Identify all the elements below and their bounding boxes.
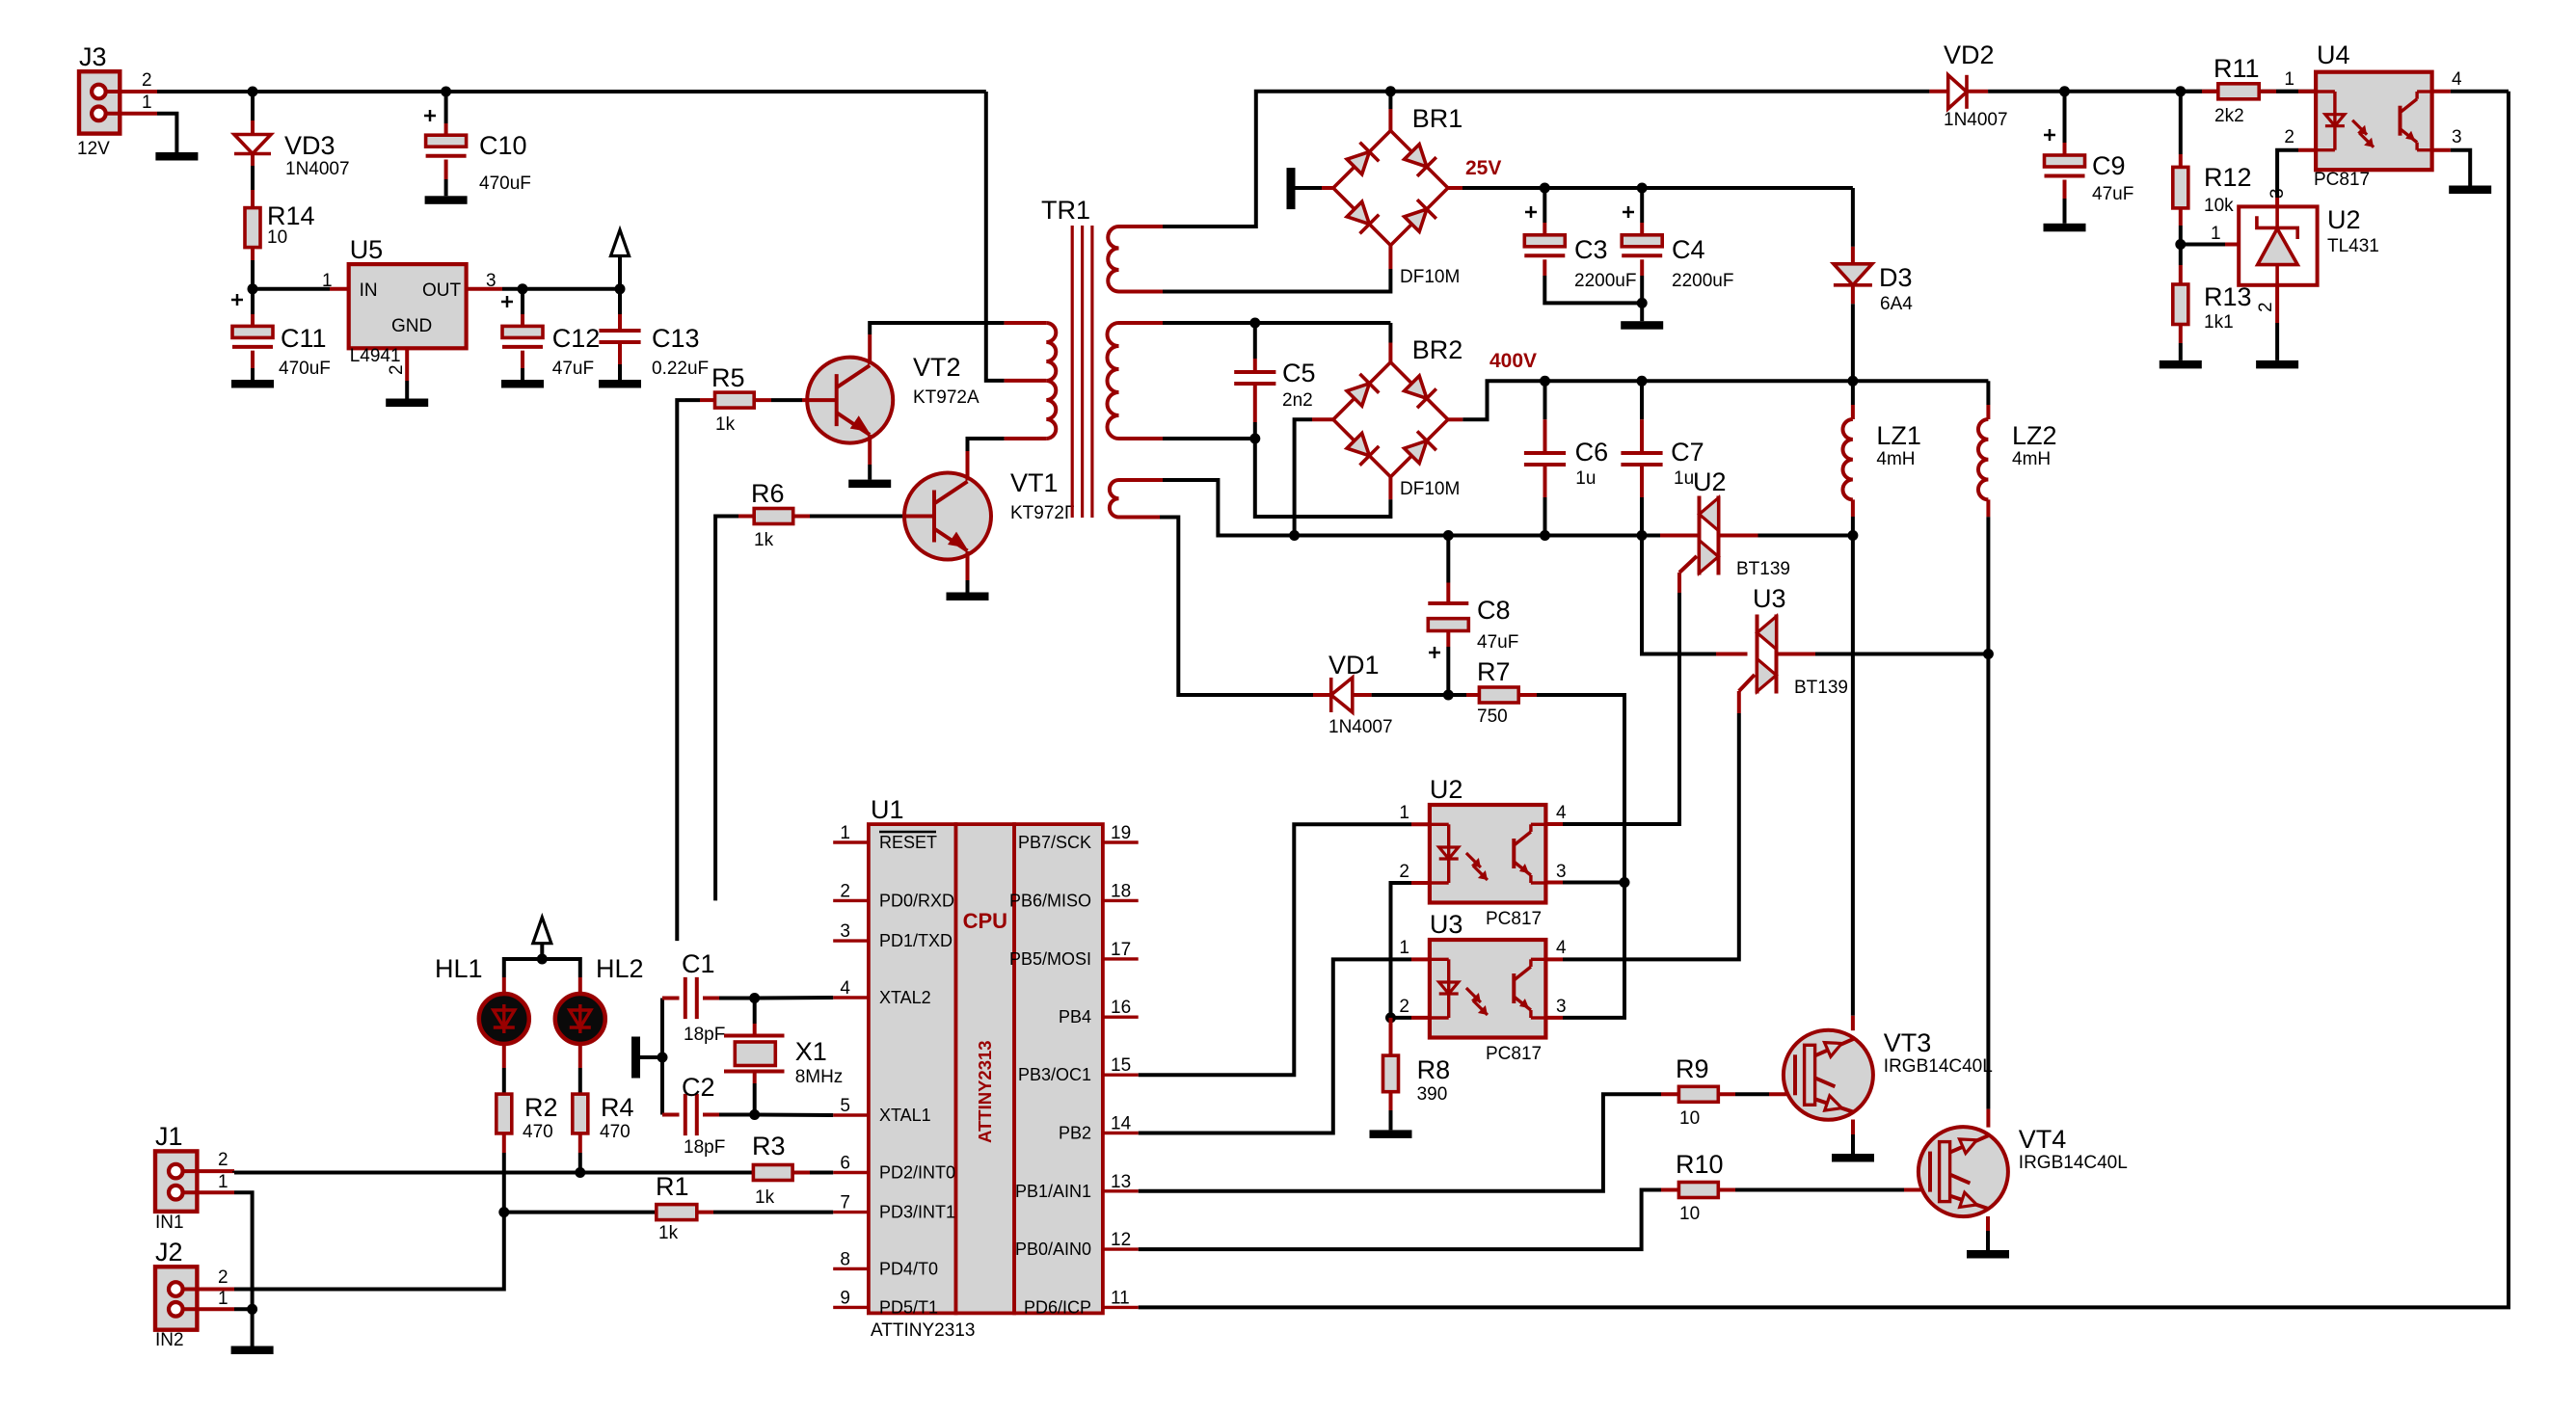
svg-text:R11: R11 <box>2214 54 2260 83</box>
svg-text:R8: R8 <box>1417 1055 1451 1084</box>
svg-text:47uF: 47uF <box>1477 632 1518 653</box>
svg-text:8MHz: 8MHz <box>795 1067 844 1087</box>
transformer TR1 label <box>1041 196 1090 225</box>
bridge rectifier BR2 DF10M <box>1333 335 1462 499</box>
svg-text:6: 6 <box>840 1154 850 1174</box>
svg-text:14: 14 <box>1111 1114 1132 1134</box>
svg-text:470uF: 470uF <box>479 173 531 194</box>
capacitor C4 <box>1622 188 1733 303</box>
svg-text:R1: R1 <box>656 1172 689 1201</box>
wire J3 pin2 to +12V rail <box>157 90 986 93</box>
xtal bus wire <box>660 999 664 1115</box>
svg-text:PC817: PC817 <box>1486 1044 1542 1064</box>
capacitor C10 <box>424 92 531 196</box>
svg-text:1: 1 <box>840 823 850 843</box>
capacitor C7 <box>1621 381 1704 535</box>
svg-text:PB1/AIN1: PB1/AIN1 <box>1015 1182 1091 1201</box>
svg-text:DF10M: DF10M <box>1400 267 1460 287</box>
svg-text:2: 2 <box>840 881 850 901</box>
svg-text:IRGB14C40L: IRGB14C40L <box>2019 1153 2128 1173</box>
wire pin3 bus to U3 pin3 <box>1545 883 1624 1018</box>
wire HL1 to R2 <box>502 1044 506 1094</box>
svg-text:1: 1 <box>2284 69 2294 90</box>
LED HL1 <box>435 954 529 1044</box>
svg-text:ATTINY2313: ATTINY2313 <box>975 1040 995 1143</box>
wire J3 pin1 to ground <box>157 114 176 152</box>
svg-text:2: 2 <box>387 364 407 375</box>
svg-text:PD1/TXD: PD1/TXD <box>879 931 953 950</box>
wire U3 pin1 from U1 pin14 <box>1139 959 1430 1133</box>
diode D3 6A4 <box>1834 188 1913 381</box>
crystal X1 8MHz <box>724 999 843 1115</box>
node C2/X1 <box>749 1109 760 1120</box>
wire J2 pin1 ground <box>234 1309 253 1346</box>
node J2 pin1 / ground <box>247 1304 257 1315</box>
svg-text:R6: R6 <box>751 479 785 508</box>
node BR1 top <box>1385 86 1396 96</box>
svg-text:3: 3 <box>1556 997 1567 1017</box>
wire C1 node to U1 XTAL2 <box>755 996 834 1000</box>
svg-text:470: 470 <box>600 1122 631 1142</box>
svg-text:1k: 1k <box>715 414 736 435</box>
resistor R5 <box>711 363 754 435</box>
node C1/X1 <box>749 993 760 1003</box>
svg-text:PD2/INT0: PD2/INT0 <box>879 1163 955 1183</box>
shunt regulator U2 TL431 <box>2211 188 2379 312</box>
wire BR1 top lead <box>1388 92 1392 131</box>
svg-text:VT2: VT2 <box>913 353 961 382</box>
wire C2 node to U1 XTAL1 <box>755 1113 834 1118</box>
svg-text:BR2: BR2 <box>1412 335 1463 364</box>
wire VT4 collector riser <box>1986 654 1990 1128</box>
wire U4 pin3 to ground <box>2433 150 2471 186</box>
svg-text:C9: C9 <box>2092 151 2126 180</box>
transistor VT4 IRGB14C40L <box>1919 1125 2128 1216</box>
wire U2 pin2 to U3 pin2 and R8 <box>1391 883 1430 1018</box>
power arrow (+5V) <box>611 230 630 289</box>
wire VT3 emitter to ground <box>1851 1120 1855 1155</box>
wire BR2 top lead <box>1388 323 1392 362</box>
node C13 / power arrow <box>615 283 626 294</box>
capacitor C11 <box>231 289 331 380</box>
svg-text:XTAL1: XTAL1 <box>879 1106 931 1125</box>
svg-text:1N4007: 1N4007 <box>285 159 350 179</box>
svg-text:C13: C13 <box>652 324 700 353</box>
svg-text:4mH: 4mH <box>2012 449 2051 469</box>
svg-text:R12: R12 <box>2204 163 2252 192</box>
svg-text:PC817: PC817 <box>2314 170 2370 190</box>
ground (TL431) <box>2256 360 2298 369</box>
TR1 secondary winding 3 (bottom right) <box>1110 480 1163 518</box>
svg-text:18pF: 18pF <box>684 1025 725 1045</box>
resistor R4 470 <box>573 1093 634 1142</box>
svg-text:2: 2 <box>1399 862 1409 882</box>
svg-text:IRGB14C40L: IRGB14C40L <box>1884 1056 1993 1077</box>
ground (VT4) <box>1967 1250 2009 1259</box>
capacitor C2 18pF <box>662 1073 755 1158</box>
svg-text:U2: U2 <box>1693 467 1727 496</box>
node D3 bottom / LZ1 top <box>1847 376 1858 387</box>
wire R14 to IN node <box>251 248 255 289</box>
svg-text:1N4007: 1N4007 <box>1328 717 1393 737</box>
resistor R10 10 <box>1139 1150 1930 1249</box>
node HL arrow <box>537 954 548 965</box>
ground (R8) <box>1370 1130 1412 1138</box>
node C7 bottom / U3 branch <box>1637 530 1648 541</box>
wire to ground (C3/C4) <box>1640 303 1644 321</box>
svg-text:LZ2: LZ2 <box>2012 421 2057 450</box>
svg-text:PD0/RXD: PD0/RXD <box>879 891 954 910</box>
node C10 top <box>441 87 451 97</box>
svg-text:BT139: BT139 <box>1794 678 1848 698</box>
svg-text:C5: C5 <box>1282 359 1316 387</box>
svg-text:ATTINY2313: ATTINY2313 <box>871 1320 975 1341</box>
svg-text:1: 1 <box>2211 224 2221 244</box>
wire J1 pin2 to R3/INT0 <box>234 1171 753 1172</box>
wire U3 MT1 branch <box>1642 536 1748 654</box>
resistor R9 10 <box>1139 1054 1795 1191</box>
svg-text:9: 9 <box>840 1288 850 1308</box>
connector J3 <box>77 42 157 159</box>
wire R6 to VT1 base <box>793 515 934 519</box>
svg-text:7: 7 <box>840 1193 850 1213</box>
svg-text:6A4: 6A4 <box>1880 294 1913 314</box>
svg-text:BR1: BR1 <box>1412 104 1463 133</box>
svg-text:PB3/OC1: PB3/OC1 <box>1018 1065 1091 1084</box>
svg-text:TR1: TR1 <box>1041 196 1090 225</box>
resistor R6 <box>751 479 793 550</box>
svg-text:VT3: VT3 <box>1884 1028 1932 1057</box>
svg-text:2: 2 <box>1399 997 1409 1017</box>
svg-text:J3: J3 <box>79 42 107 71</box>
svg-text:10: 10 <box>1679 1204 1700 1224</box>
svg-text:2: 2 <box>2256 302 2276 312</box>
svg-text:11: 11 <box>1111 1288 1130 1308</box>
net label 25V <box>1465 157 1501 179</box>
svg-text:1: 1 <box>322 271 333 291</box>
wire U3 pin2 stub <box>1391 1016 1430 1020</box>
svg-text:U4: U4 <box>2317 40 2350 69</box>
capacitor C12 <box>501 289 600 380</box>
svg-text:DF10M: DF10M <box>1400 479 1460 499</box>
svg-text:X1: X1 <box>795 1037 827 1066</box>
svg-text:R3: R3 <box>752 1132 786 1160</box>
diode VD3 <box>234 92 350 208</box>
svg-text:C7: C7 <box>1671 438 1704 467</box>
wire R6 left to U1 pin2 <box>715 517 754 901</box>
svg-text:BT139: BT139 <box>1736 559 1790 579</box>
node C9 top <box>2059 86 2070 96</box>
svg-text:3: 3 <box>2452 127 2462 147</box>
svg-text:4: 4 <box>1556 938 1567 958</box>
ground (C3/C4) <box>1621 321 1663 330</box>
diode VD1 1N4007 <box>1328 651 1393 737</box>
svg-text:1k1: 1k1 <box>2204 312 2234 333</box>
svg-text:4mH: 4mH <box>1876 449 1915 469</box>
svg-text:C11: C11 <box>281 324 327 353</box>
wire R5 to VT2 base <box>754 398 837 402</box>
wire R2 to R1 node <box>502 1133 506 1213</box>
optocoupler U3 PC817 <box>1399 910 1567 1064</box>
svg-text:19: 19 <box>1111 823 1131 843</box>
voltage regulator U5 L4941 <box>322 235 496 375</box>
ground (VT3) <box>1832 1154 1874 1162</box>
node opto U2 pin3 <box>1620 877 1630 888</box>
svg-text:PB4: PB4 <box>1059 1007 1091 1026</box>
resistor R14 <box>245 201 315 248</box>
wire TR1 sec1 top to top rail <box>1163 92 1929 227</box>
svg-text:400V: 400V <box>1489 350 1537 372</box>
triac U3 BT139 <box>1739 584 1989 713</box>
svg-text:U2: U2 <box>2327 205 2361 234</box>
node LZ2 bottom / VT4 collector <box>1983 649 1994 659</box>
svg-text:R2: R2 <box>524 1093 558 1122</box>
ground (C13) <box>599 380 641 388</box>
wire TL431 cathode to U4 pin2 <box>2277 150 2316 207</box>
svg-text:1u: 1u <box>1575 468 1596 489</box>
wire 25V rail <box>1448 186 1853 190</box>
svg-text:PD6/ICP: PD6/ICP <box>1024 1297 1091 1317</box>
svg-text:1k: 1k <box>658 1223 679 1243</box>
node +12V at VD3 <box>248 87 258 97</box>
svg-text:470uF: 470uF <box>279 359 331 379</box>
svg-text:1k: 1k <box>755 1187 775 1208</box>
svg-text:IN: IN <box>360 280 378 301</box>
svg-text:PD4/T0: PD4/T0 <box>879 1259 938 1278</box>
capacitor C5 <box>1234 323 1315 439</box>
wire triac U3 gate to opto U3 pin4 <box>1545 713 1739 959</box>
svg-text:PB2: PB2 <box>1059 1124 1091 1143</box>
LED HL2 <box>555 954 644 1044</box>
svg-text:PB0/AIN0: PB0/AIN0 <box>1015 1240 1091 1259</box>
ground (J1/J2) <box>231 1346 274 1355</box>
svg-text:OUT: OUT <box>422 280 462 301</box>
svg-text:IN2: IN2 <box>155 1330 184 1350</box>
svg-text:2: 2 <box>218 1150 228 1170</box>
resistor R1 1k <box>656 1172 833 1243</box>
ground (J3) <box>155 152 198 161</box>
svg-text:J1: J1 <box>155 1122 183 1151</box>
wire VT1 emitter to ground <box>966 551 970 593</box>
node C12 <box>518 283 528 294</box>
resistor R7 <box>1448 657 1537 727</box>
ground (VT1) <box>947 593 989 601</box>
svg-text:47uF: 47uF <box>552 359 594 379</box>
svg-text:16: 16 <box>1111 998 1131 1018</box>
TR1 core <box>1072 226 1092 518</box>
ground (U4) <box>2449 186 2491 195</box>
node BR2-left on common rail <box>1289 530 1300 541</box>
svg-text:12V: 12V <box>77 139 110 159</box>
svg-text:4: 4 <box>2452 69 2462 90</box>
svg-text:KT972A: KT972A <box>913 387 979 408</box>
wire +12V rail down to TR1 center tap <box>986 92 1047 381</box>
svg-text:390: 390 <box>1417 1084 1448 1105</box>
svg-text:1: 1 <box>218 1172 228 1192</box>
svg-text:1k: 1k <box>754 530 774 550</box>
node C4 top <box>1637 183 1648 194</box>
ground (VT2) <box>848 480 891 489</box>
svg-text:IN1: IN1 <box>155 1213 184 1233</box>
wire U2 pin3 stub <box>1545 881 1624 885</box>
node C7 top <box>1637 376 1648 387</box>
capacitor C3 <box>1524 188 1642 303</box>
bar terminator (XTAL gnd) <box>631 1037 662 1079</box>
wire TR1 sec2 top to BR2 <box>1163 321 1390 325</box>
wire TR1 sec3 top to common rail <box>1163 480 1295 536</box>
svg-text:750: 750 <box>1477 706 1508 727</box>
svg-text:U5: U5 <box>350 235 384 264</box>
svg-text:R9: R9 <box>1676 1054 1709 1083</box>
svg-text:2: 2 <box>142 70 152 91</box>
node U5 IN <box>248 283 258 294</box>
TR1 primary winding (left) <box>1046 323 1056 439</box>
svg-text:10k: 10k <box>2204 196 2234 216</box>
svg-text:4: 4 <box>840 978 850 999</box>
svg-text:XTAL2: XTAL2 <box>879 988 931 1007</box>
inductor LZ1 4mH <box>1842 381 1920 535</box>
power arrow (HL) <box>533 918 551 959</box>
svg-text:HL2: HL2 <box>596 954 644 983</box>
svg-text:1: 1 <box>142 93 152 113</box>
node C5 top <box>1249 318 1260 329</box>
svg-text:2: 2 <box>218 1267 228 1288</box>
capacitor C8 47uF <box>1428 536 1518 696</box>
node C3 top <box>1540 183 1550 194</box>
wire triac U2 gate to opto U2 pin4 <box>1545 593 1679 824</box>
svg-text:1N4007: 1N4007 <box>1944 110 2008 130</box>
node C8 top <box>1443 530 1454 541</box>
node LZ1 bottom / VT3 collector <box>1847 530 1858 541</box>
wire HL2 to R4 <box>578 1044 582 1094</box>
triac U2 BT139 <box>1660 467 1853 593</box>
svg-text:TL431: TL431 <box>2327 236 2379 256</box>
svg-text:12: 12 <box>1111 1230 1131 1250</box>
wire TR1 sec3 bottom to VD1 <box>1160 518 1331 696</box>
wire common rail <box>1295 534 1690 538</box>
svg-text:2200uF: 2200uF <box>1574 271 1636 291</box>
node R1/R2/J2 <box>498 1207 509 1217</box>
svg-text:U2: U2 <box>1430 775 1463 804</box>
svg-text:L4941: L4941 <box>350 346 401 366</box>
node C8 bottom <box>1443 690 1454 701</box>
svg-text:470: 470 <box>523 1122 553 1142</box>
svg-text:C10: C10 <box>479 131 527 160</box>
svg-text:18pF: 18pF <box>684 1137 725 1158</box>
svg-text:3: 3 <box>840 921 850 942</box>
svg-text:C1: C1 <box>682 949 715 978</box>
svg-text:GND: GND <box>391 316 432 336</box>
svg-text:2200uF: 2200uF <box>1672 271 1733 291</box>
bar terminator (BR1 AC-) <box>1287 168 1333 209</box>
svg-text:5: 5 <box>840 1096 850 1116</box>
wire TR1 sec2 bottom to BR2 AC <box>1163 437 1255 440</box>
svg-text:10: 10 <box>1679 1108 1700 1129</box>
ground (C9) <box>2044 224 2086 232</box>
svg-text:VD3: VD3 <box>284 131 335 160</box>
resistor R13 <box>2173 245 2252 360</box>
wire U5 OUT <box>467 287 620 291</box>
wire VT2 collector to TR1 <box>870 323 1046 364</box>
svg-text:3: 3 <box>1556 862 1567 882</box>
svg-text:U3: U3 <box>1753 584 1786 613</box>
svg-text:R7: R7 <box>1477 657 1511 686</box>
node TL431 ref <box>2175 239 2186 250</box>
resistor R8 390 <box>1383 1018 1451 1131</box>
svg-text:PD3/INT1: PD3/INT1 <box>879 1203 955 1222</box>
svg-text:C6: C6 <box>1575 438 1609 467</box>
node C6 bottom <box>1540 530 1550 541</box>
wire IN node to U5 <box>253 287 349 291</box>
svg-text:PB5/MOSI: PB5/MOSI <box>1009 949 1091 969</box>
wire HL top rail <box>504 959 580 994</box>
resistor R2 470 <box>496 1093 558 1142</box>
wire VT2 emitter to ground <box>868 435 872 480</box>
connector J1 <box>155 1122 234 1233</box>
wire BR1 bottom to TR1 sec1 bottom <box>1163 246 1390 292</box>
wire VT1 collector to TR1 <box>968 439 1047 481</box>
svg-text:PB6/MISO: PB6/MISO <box>1009 891 1091 910</box>
inductor LZ2 4mH <box>1978 381 2057 653</box>
resistor R3 1k <box>752 1132 833 1208</box>
svg-text:R14: R14 <box>267 201 315 230</box>
svg-text:R10: R10 <box>1676 1150 1724 1179</box>
svg-text:VD2: VD2 <box>1944 40 1995 69</box>
capacitor C9 <box>2044 92 2133 224</box>
svg-text:HL1: HL1 <box>435 954 483 983</box>
optocoupler U2 PC817 <box>1399 775 1567 929</box>
svg-text:1: 1 <box>1399 803 1409 823</box>
wire right bus down to U1 pin11 <box>1139 92 2509 1308</box>
node C5 bottom <box>1249 434 1260 444</box>
svg-text:2n2: 2n2 <box>1282 390 1313 411</box>
diode VD2 1N4007 <box>1929 40 2316 130</box>
svg-text:PB7/SCK: PB7/SCK <box>1018 833 1091 852</box>
svg-text:10: 10 <box>267 227 287 248</box>
svg-text:J2: J2 <box>155 1238 183 1266</box>
TR1 secondary winding 1 (top right) <box>1108 227 1163 292</box>
net label 400V <box>1489 350 1537 372</box>
wire TL431 anode to ground <box>2275 285 2279 360</box>
ground (C12) <box>501 380 544 388</box>
wire sec2 bottom to BR2 bottom vertex <box>1255 439 1391 517</box>
svg-text:U3: U3 <box>1430 910 1463 939</box>
svg-text:C12: C12 <box>552 324 601 353</box>
resistor R12 <box>2173 92 2252 245</box>
svg-text:1: 1 <box>1399 938 1409 958</box>
svg-text:D3: D3 <box>1879 263 1913 292</box>
svg-text:R5: R5 <box>711 363 745 392</box>
node C3/C4 common <box>1637 298 1648 308</box>
svg-text:C2: C2 <box>682 1073 715 1102</box>
svg-text:8: 8 <box>840 1249 850 1269</box>
svg-text:VT1: VT1 <box>1010 468 1059 497</box>
svg-text:KT972Г: KT972Г <box>1010 503 1074 523</box>
svg-text:RESET: RESET <box>879 833 937 852</box>
ground (C10) <box>425 196 468 204</box>
capacitor C1 18pF <box>662 949 755 1045</box>
node U3 pin2 / R8 <box>1385 1012 1396 1023</box>
svg-text:VD1: VD1 <box>1328 651 1380 680</box>
svg-text:1: 1 <box>218 1289 228 1309</box>
svg-text:PD5/T1: PD5/T1 <box>879 1297 938 1317</box>
svg-text:2k2: 2k2 <box>2214 106 2244 126</box>
svg-text:2: 2 <box>2284 127 2294 147</box>
wire BR2 left vertex to common rail <box>1295 419 1333 535</box>
wire R7 to opto pin3 bus <box>1537 695 1624 883</box>
svg-text:LZ1: LZ1 <box>1876 421 1921 450</box>
svg-text:C4: C4 <box>1672 235 1705 264</box>
